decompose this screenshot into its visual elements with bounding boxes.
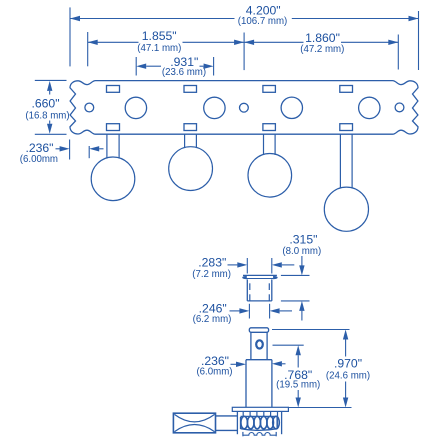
svg-text:(47.2 mm): (47.2 mm) xyxy=(300,44,344,55)
svg-text:.283": .283" xyxy=(198,256,226,270)
svg-text:(6.00mm: (6.00mm xyxy=(20,154,58,165)
svg-text:.315": .315" xyxy=(289,233,317,247)
svg-text:1.855": 1.855" xyxy=(142,29,177,43)
svg-text:(24.6 mm): (24.6 mm) xyxy=(326,371,370,382)
svg-text:(23.6 mm): (23.6 mm) xyxy=(162,67,206,78)
svg-text:(8.0 mm): (8.0 mm) xyxy=(282,246,321,257)
svg-text:(6.0mm): (6.0mm) xyxy=(196,367,232,378)
svg-text:(47.1 mm): (47.1 mm) xyxy=(137,43,181,54)
svg-text:(6.2 mm): (6.2 mm) xyxy=(193,314,232,325)
svg-text:(7.2 mm): (7.2 mm) xyxy=(192,269,231,280)
svg-text:.660": .660" xyxy=(31,97,59,111)
svg-text:(106.7 mm): (106.7 mm) xyxy=(238,16,288,27)
svg-text:1.860": 1.860" xyxy=(305,31,340,45)
svg-text:(19.5 mm): (19.5 mm) xyxy=(276,380,320,391)
svg-text:(16.8 mm): (16.8 mm) xyxy=(25,110,69,121)
svg-text:.970": .970" xyxy=(334,357,362,371)
